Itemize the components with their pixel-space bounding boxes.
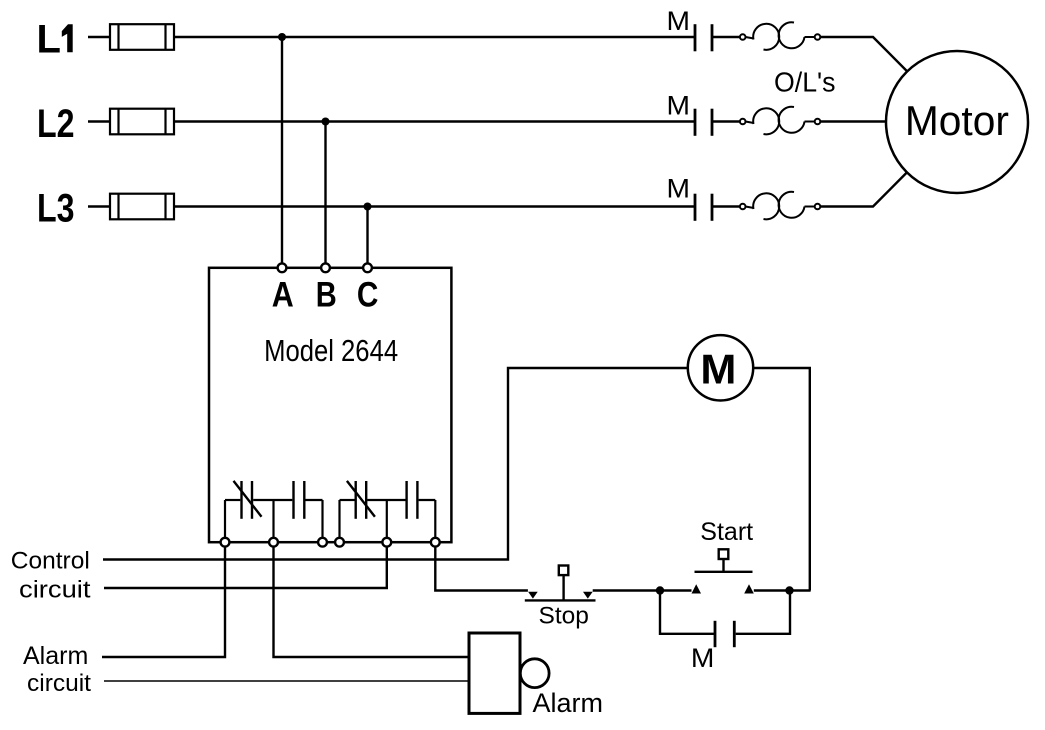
terminal 5 <box>382 538 391 547</box>
label L1 <box>37 17 73 61</box>
coil M <box>688 335 753 400</box>
fuse F2 <box>110 109 174 135</box>
wire M seal-in branch right <box>736 591 790 634</box>
relay NO contact 1 <box>294 481 305 519</box>
contact M seal-in <box>715 621 734 647</box>
junction node start-right <box>785 586 793 594</box>
relay NC contact 2 <box>347 481 375 519</box>
wire L2 stub <box>88 120 110 122</box>
terminal 3 <box>318 538 327 547</box>
wire alarm line 1a to terminal 1 <box>102 547 225 657</box>
pushbutton Start (NO) <box>692 549 754 593</box>
svg-text:L3: L3 <box>37 186 75 230</box>
svg-text:C: C <box>357 275 379 314</box>
relay NO contact 2 <box>407 481 418 519</box>
svg-text:Alarm: Alarm <box>23 642 88 670</box>
svg-text:Motor: Motor <box>905 97 1009 144</box>
svg-text:L2: L2 <box>37 102 75 146</box>
contact M row3 <box>695 194 712 221</box>
junction L3 node <box>364 203 372 211</box>
svg-text:M: M <box>691 643 715 673</box>
fuse F1 <box>110 24 174 50</box>
wire control line 1 <box>103 368 688 560</box>
svg-text:circuit: circuit <box>27 670 91 697</box>
terminal A <box>278 263 287 272</box>
contact M row1 <box>695 24 712 51</box>
alarm box <box>469 633 520 713</box>
wire row2 contact to OL <box>713 120 740 122</box>
wire row1 contact to OL <box>713 36 740 38</box>
motor M1 <box>886 51 1028 193</box>
wire row3 OL to motor <box>820 173 907 207</box>
wire Stop to junction <box>593 589 660 591</box>
wire row2 OL to motor <box>820 120 886 122</box>
wire Start to junction 2 <box>754 589 811 591</box>
relay contact group 1 wiring <box>225 500 323 538</box>
wire L1 drop to terminal A <box>281 37 283 263</box>
wire L1 stub <box>88 36 110 38</box>
terminal 2 <box>269 538 278 547</box>
svg-text:Start: Start <box>700 518 753 546</box>
wire alarm line 2 <box>104 680 469 682</box>
svg-text:B: B <box>316 275 337 314</box>
svg-text:Model 2644: Model 2644 <box>264 333 398 368</box>
wire terminal 2 to alarm box <box>274 547 470 657</box>
wire coil to right drop <box>753 368 810 591</box>
svg-text:M: M <box>667 90 691 120</box>
wire junction to Start <box>660 589 692 591</box>
svg-text:A: A <box>272 275 294 314</box>
overload heater OL3 <box>740 192 820 220</box>
svg-text:Alarm: Alarm <box>533 688 604 718</box>
svg-text:Control: Control <box>11 548 90 575</box>
wire L3 stub <box>88 205 110 207</box>
overload heater OL2 <box>740 107 820 135</box>
wire L2 horizontal <box>174 120 695 122</box>
svg-text:M: M <box>700 345 736 392</box>
terminal 6 <box>431 538 440 547</box>
wire L3 drop to terminal C <box>366 207 368 264</box>
wire L2 drop to terminal B <box>324 122 326 264</box>
wire control line 2 to terminal 5 <box>104 547 387 588</box>
wire row1 OL to motor <box>820 37 907 71</box>
svg-text:M: M <box>667 6 691 36</box>
wire row3 contact to OL <box>713 205 740 207</box>
wire L1 horizontal <box>174 36 695 38</box>
terminal 4 <box>335 538 344 547</box>
overload heater OL1 <box>740 22 820 50</box>
relay NC contact 1 <box>234 481 262 519</box>
svg-text:circuit: circuit <box>19 576 91 603</box>
terminal C <box>363 263 372 272</box>
svg-text:L: L <box>37 17 61 61</box>
wire L3 horizontal <box>174 205 695 207</box>
junction L2 node <box>322 118 330 126</box>
junction L1 node <box>278 33 286 41</box>
junction node stop-start <box>656 586 664 594</box>
svg-text:M: M <box>667 173 691 203</box>
svg-text:Stop: Stop <box>539 603 589 630</box>
relay box Model 2644 <box>209 268 451 542</box>
terminal B <box>321 263 330 272</box>
wire M seal-in branch left <box>660 591 714 634</box>
pushbutton Stop (NC) <box>525 566 596 601</box>
fuse F3 <box>110 194 174 220</box>
alarm bell circle <box>520 659 549 688</box>
contact M row2 <box>695 109 712 136</box>
relay contact group 2 wiring <box>340 500 436 538</box>
wire terminal 6 to Stop <box>435 547 528 591</box>
svg-text:O/L's: O/L's <box>774 67 836 98</box>
terminal 1 <box>221 538 230 547</box>
